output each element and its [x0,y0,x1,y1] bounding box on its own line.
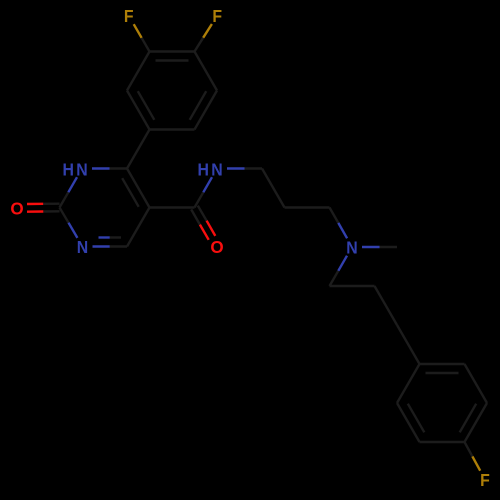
svg-text:O: O [10,198,23,219]
double bond C5=C6 [122,169,149,208]
svg-text:N: N [211,160,222,180]
bond C14-C15 [375,286,398,325]
benzene A bond A5-A6 [127,52,150,91]
benzene A double bond A4-A5 [150,52,195,61]
bond C8-C9 [262,169,285,208]
svg-text:N: N [76,160,87,180]
bond C6-N1 [92,167,127,169]
bond C13-C14 [330,285,375,287]
benzene A double bond A6-A1 [127,91,154,130]
benzene C double bond B3-B4 [460,403,487,442]
bond N11-methyl [362,246,397,248]
double bond C7=O [191,206,215,240]
benzene C bond B2-B3 [465,364,488,403]
svg-text:F: F [212,6,222,26]
bond C5-C7 [150,206,195,208]
bond N1-C2 [60,177,78,207]
bond C9-C10 [285,206,330,208]
benzene A bond A1-A2 [150,128,195,130]
bond C2-N3 [60,208,78,238]
benzene A double bond A2-A3 [190,91,217,130]
bond C10-N11 [330,208,348,239]
bond C-F1 [134,24,150,51]
bond C-F2 [195,24,212,52]
bond C15-aryl [397,325,420,364]
svg-text:F: F [124,6,134,26]
bond C7-N7 [195,177,213,207]
benzene C double bond B5-B6 [397,403,424,442]
svg-text:N: N [77,237,88,257]
bond N11-C13 [330,256,348,286]
benzene A bond A3-A4 [195,52,218,91]
double bond N3=C4 [93,238,128,247]
svg-text:N: N [346,238,357,258]
svg-text:O: O [210,237,223,258]
benzene C double bond B1-B2 [420,364,465,373]
svg-text:F: F [480,470,490,490]
svg-text:H: H [197,160,208,180]
bond C-F3 [465,442,481,471]
double bond C2=O [27,204,60,212]
benzene C bond B4-B5 [420,441,465,443]
bond C4-C5 [127,208,150,247]
svg-text:H: H [62,160,73,180]
bond N7-C8 [227,167,262,169]
benzene C bond B6-B1 [397,364,420,403]
bond C6-aryl [127,130,150,169]
